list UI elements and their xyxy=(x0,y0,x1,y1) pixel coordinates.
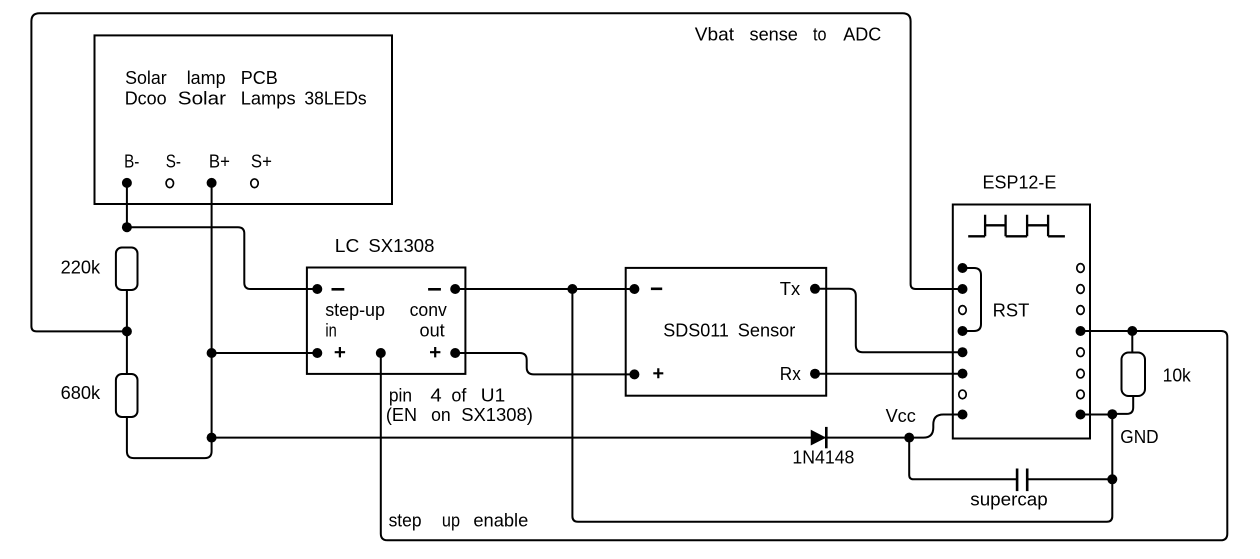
svg-text:in: in xyxy=(325,320,336,341)
pin ESP left 6 Tx xyxy=(958,369,968,379)
wire GND rail down from ESP GND node xyxy=(1111,414,1113,479)
svg-text:up: up xyxy=(442,510,460,531)
wire Vbat sense loop: divider midpoint to ESP ADC pin xyxy=(31,13,962,331)
wire SDS Tx jog to ESP xyxy=(815,289,963,352)
box SDS011 sensor xyxy=(626,268,827,396)
pin ESP right 2 open xyxy=(1077,285,1084,294)
svg-text:Tx: Tx xyxy=(780,278,801,299)
svg-text:(EN: (EN xyxy=(386,404,417,425)
wire B+ to step-up in plus xyxy=(212,352,318,354)
capacitor supercap right plate xyxy=(1026,469,1029,492)
pin step-up in minus xyxy=(312,284,322,294)
wire 680k bottom jog to B+ rail node xyxy=(127,417,212,458)
svg-text:step: step xyxy=(389,510,422,531)
svg-text:U1: U1 xyxy=(481,384,505,405)
svg-text:enable: enable xyxy=(473,510,528,531)
pin ESP left 4 RST xyxy=(958,326,968,336)
svg-text:on: on xyxy=(431,404,451,425)
svg-text:ADC: ADC xyxy=(843,23,881,44)
node B- junction to 220k xyxy=(122,222,132,232)
pin SDS Tx xyxy=(810,284,820,294)
svg-text:RST: RST xyxy=(993,300,1030,321)
pin ESP left 1 xyxy=(958,263,968,273)
svg-text:10k: 10k xyxy=(1163,365,1192,386)
pin ESP right 8 GND xyxy=(1076,410,1086,420)
svg-text:38LEDs: 38LEDs xyxy=(304,87,366,108)
pin ESP left 2 ADC xyxy=(958,284,968,294)
svg-text:Rx: Rx xyxy=(780,363,802,384)
svg-text:Solar: Solar xyxy=(178,87,226,108)
pin conv out plus xyxy=(450,348,460,358)
pin ESP left 7 open xyxy=(959,390,966,399)
svg-text:ESP12-E: ESP12-E xyxy=(983,172,1057,193)
wire step-up enable loop: EN pin to 10k node xyxy=(381,331,1228,540)
node divider midpoint junction xyxy=(122,326,132,336)
svg-text:out: out xyxy=(420,320,446,341)
svg-text:SX1308): SX1308) xyxy=(461,404,533,425)
svg-text:to: to xyxy=(813,23,827,44)
node Vcc junction xyxy=(904,433,914,443)
diode 1N4148 cathode bar xyxy=(825,427,828,448)
svg-text:of: of xyxy=(451,384,467,405)
svg-text:SX1308: SX1308 xyxy=(368,235,434,256)
wire B+ rail xyxy=(211,183,213,438)
pin step-up in plus xyxy=(312,348,322,358)
svg-text:conv: conv xyxy=(410,299,448,320)
svg-text:680k: 680k xyxy=(61,382,101,403)
diode 1N4148 triangle xyxy=(812,431,825,444)
svg-text:Solar: Solar xyxy=(125,67,167,88)
svg-text:sense: sense xyxy=(750,23,798,44)
box LC SX1308 xyxy=(307,268,466,374)
pin ESP right 7 open xyxy=(1077,390,1084,399)
svg-text:lamp: lamp xyxy=(187,67,226,88)
wire B- node to step-up in minus xyxy=(127,227,317,289)
wire conv out minus to SDS minus xyxy=(455,288,634,290)
node B+ to step-up in plus xyxy=(207,348,217,358)
svg-text:SDS011: SDS011 xyxy=(663,320,729,341)
svg-text:S-: S- xyxy=(166,150,181,171)
pin B+ terminal xyxy=(207,178,217,188)
pin ESP right 6 open xyxy=(1077,369,1084,378)
svg-text:B-: B- xyxy=(124,150,139,171)
pin S+ open circle xyxy=(251,179,258,188)
box ESP12-E module xyxy=(953,205,1090,439)
wire RST jumper bracket xyxy=(963,268,982,331)
svg-text:Vcc: Vcc xyxy=(886,405,916,426)
svg-text:1N4148: 1N4148 xyxy=(792,447,854,468)
svg-text:GND: GND xyxy=(1120,426,1158,447)
resistor 10k body xyxy=(1122,353,1146,397)
resistor 680k body xyxy=(116,374,138,417)
svg-text:PCB: PCB xyxy=(241,67,278,88)
wire Vcc node jog up to ESP Vcc pin xyxy=(909,415,962,438)
wire midpoint to 680k top xyxy=(126,331,128,374)
wire B- pin stub xyxy=(126,183,128,227)
wire SDS Rx to ESP xyxy=(815,373,963,375)
wire Vcc node down to supercap left xyxy=(909,438,1017,480)
svg-text:4: 4 xyxy=(430,384,441,405)
svg-text:Sensor: Sensor xyxy=(738,320,796,341)
pin SDS minus xyxy=(629,284,639,294)
pin ESP left 5 Rx xyxy=(958,347,968,357)
svg-text:Lamps: Lamps xyxy=(241,87,296,108)
wire 10k bottom to GND node xyxy=(1112,396,1133,414)
wire ESP GND pin to GND node xyxy=(1081,414,1113,416)
svg-text:Vbat: Vbat xyxy=(695,23,735,44)
pin EN pin 4 of U1 xyxy=(376,348,386,358)
pin ESP left 3 open xyxy=(959,306,966,315)
svg-text:pin: pin xyxy=(389,384,412,405)
wire 220k bottom to midpoint xyxy=(126,290,128,331)
pin ESP left 8 Vcc xyxy=(958,410,968,420)
symbol minus step-up in xyxy=(332,288,345,291)
wire main rail to diode xyxy=(212,437,812,439)
pin S- open circle xyxy=(166,179,173,188)
pin conv out minus xyxy=(450,284,460,294)
svg-text:S+: S+ xyxy=(251,150,272,171)
node supercap right junction xyxy=(1107,474,1117,484)
icon square wave inside ESP xyxy=(968,215,1065,237)
symbol minus SDS xyxy=(651,287,662,290)
resistor 220k body xyxy=(116,248,138,291)
svg-text:LC: LC xyxy=(335,235,360,256)
svg-text:step-up: step-up xyxy=(325,299,385,320)
pin SDS Rx xyxy=(810,369,820,379)
symbol plus step-up in xyxy=(335,347,345,357)
node GND junction xyxy=(1107,409,1117,419)
node B+ rail bottom junction xyxy=(207,433,217,443)
wire supercap right to GND rail xyxy=(1027,478,1112,480)
box solar lamp PCB xyxy=(95,35,393,204)
symbol minus conv out xyxy=(428,288,441,291)
pin ESP right 1 open xyxy=(1077,264,1084,273)
wire conv out plus jog to SDS plus xyxy=(455,353,634,374)
svg-text:Dcoo: Dcoo xyxy=(125,87,167,108)
node 10k top junction xyxy=(1127,326,1137,336)
pin ESP right 4 enable xyxy=(1076,326,1086,336)
pin ESP right 5 open xyxy=(1077,348,1084,357)
wire diode to Vcc node xyxy=(825,437,910,439)
pin ESP right 3 open xyxy=(1077,306,1084,315)
wire 10k top from node xyxy=(1131,331,1133,353)
symbol plus conv out xyxy=(430,347,440,357)
svg-text:B+: B+ xyxy=(209,150,230,171)
svg-text:supercap: supercap xyxy=(970,489,1047,510)
pin SDS plus xyxy=(629,369,639,379)
wire supercap node to boost converter minus xyxy=(572,289,1112,522)
symbol plus SDS xyxy=(653,368,663,378)
svg-text:220k: 220k xyxy=(61,257,101,278)
capacitor supercap left plate xyxy=(1016,469,1019,492)
node minus rail junction xyxy=(567,284,577,294)
pin B- terminal xyxy=(122,178,132,188)
